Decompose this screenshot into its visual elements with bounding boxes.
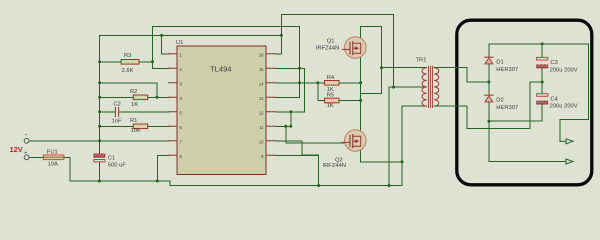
svg-text:C3: C3 <box>550 60 557 66</box>
node bus/R4 <box>359 81 362 84</box>
wire output minus to terminal <box>489 161 566 163</box>
node D2 anode / C4 bottom <box>487 120 490 123</box>
wire R5 right to source bus <box>339 100 361 102</box>
wire source bus Q1 bottom to Q2 top <box>360 58 362 131</box>
node pin16 vertical / W1 <box>280 34 283 37</box>
node primary top <box>380 66 383 69</box>
svg-text:D2: D2 <box>496 98 503 104</box>
capacitor C2 <box>112 102 122 125</box>
wire secondary top to D1/D2 junction <box>434 68 489 82</box>
wire W1 top inner (gnd bus to pins 1,16) <box>100 34 282 36</box>
resistor R3 <box>121 53 139 74</box>
node junction R3 right / outer loop <box>151 60 154 63</box>
node pin12 link top <box>289 110 292 113</box>
svg-text:1K: 1K <box>327 103 334 109</box>
node bus row83 <box>98 81 101 84</box>
node D1 anode / D2 cathode / secondary top <box>487 81 490 84</box>
wire pin12 link <box>276 111 304 113</box>
node R4 branch to R5 <box>316 81 319 84</box>
diode D2 HER307 <box>485 95 519 111</box>
svg-text:C2: C2 <box>114 102 121 108</box>
wire pin2 stub link <box>153 67 169 69</box>
node bus/R5 <box>359 99 362 102</box>
wire pin11 node to Q2 gate <box>286 126 345 143</box>
capacitor C4 200u 200V <box>537 94 578 110</box>
battery plus terminal <box>24 151 29 160</box>
wire primary top lead <box>382 67 427 69</box>
node junction pin1/W1 <box>160 34 163 37</box>
svg-text:U1: U1 <box>176 40 183 46</box>
wire R3 left lead <box>100 61 121 63</box>
wire Q1 drain loop <box>361 27 382 68</box>
wire pin14 to R4 <box>276 82 325 84</box>
wire pin10 path <box>276 141 319 155</box>
wire +12V rail right section (stepped) <box>170 181 402 186</box>
fuse FU1 <box>43 149 64 167</box>
wire R4 right to source bus <box>339 82 361 84</box>
svg-text:14: 14 <box>259 82 264 87</box>
node bus/R2 <box>98 96 101 99</box>
wire pin16 up and top rail to transformer centre tap <box>276 15 394 88</box>
svg-text:TL494: TL494 <box>210 65 232 74</box>
svg-text:R1: R1 <box>130 118 137 124</box>
wire top rail inside box <box>489 43 589 45</box>
wire plus terminal to fuse <box>29 156 43 158</box>
wire R3 right lead <box>139 61 153 63</box>
wire pin15 link <box>276 67 300 69</box>
wire centre tap down to rail <box>388 87 390 185</box>
wire C3 top lead <box>541 44 543 57</box>
transistor Q1 IRFZ44N <box>316 37 366 59</box>
svg-text:200u 200V: 200u 200V <box>550 104 578 110</box>
wire left gnd bus vertical <box>99 35 101 153</box>
svg-text:1K: 1K <box>131 102 138 108</box>
capacitor C1 (electrolytic) <box>94 154 127 169</box>
node C3 top on rail <box>541 42 544 45</box>
IC U1 TL494 <box>176 40 266 175</box>
resistor R5 <box>325 93 339 109</box>
svg-text:C4: C4 <box>550 97 558 103</box>
svg-text:10: 10 <box>259 140 264 145</box>
node pin9/10 drop on rail <box>317 184 320 187</box>
svg-text:13: 13 <box>259 96 264 101</box>
primary winding (left, bumps facing left) <box>422 68 427 106</box>
wire row-83 bus to R2-right node <box>100 83 157 98</box>
wire centre tap lead <box>389 86 427 88</box>
svg-text:200u 200V: 200u 200V <box>550 67 578 73</box>
transformer TR1 <box>416 58 439 108</box>
svg-text:HER307: HER307 <box>496 67 518 73</box>
resistor R2 <box>130 89 148 108</box>
svg-text:C1: C1 <box>108 156 115 162</box>
svg-text:12V: 12V <box>10 145 23 154</box>
wire +12V rail left section <box>70 180 170 182</box>
wire D2 anode down to output minus <box>488 103 490 162</box>
svg-text:R2: R2 <box>130 89 137 95</box>
svg-text:10K: 10K <box>131 128 141 134</box>
node bus/C2 <box>98 110 101 113</box>
wire pin12 to pin11 link <box>290 112 292 127</box>
node R2 right / row83 <box>155 96 158 99</box>
wire pin9 path to rail <box>276 155 319 185</box>
wire C3 bottom to C4 top <box>541 68 543 94</box>
wire R1 right lead to pin6 <box>148 125 169 127</box>
svg-text:IRFZ44N: IRFZ44N <box>316 46 340 52</box>
diode D1 HER307 <box>485 57 519 73</box>
wire C1 bottom lead <box>98 162 100 181</box>
terminal output plus <box>560 139 573 144</box>
pin numbers right <box>259 53 264 160</box>
svg-text:TR1: TR1 <box>416 58 427 64</box>
node bus/R1 <box>98 125 101 128</box>
wire fuse to rail down <box>64 157 70 181</box>
wire secondary bottom to C3/C4 midpoint <box>434 82 542 128</box>
node center-tap vertical on rail <box>388 184 391 187</box>
pin stubs right (16-9) <box>266 54 276 156</box>
node Q2 source / primary bottom vertical <box>401 160 404 163</box>
node C3/C4 midpoint <box>541 81 544 84</box>
svg-text:12: 12 <box>259 111 264 116</box>
wire Q2 source to right <box>361 151 402 162</box>
battery minus terminal <box>24 132 29 143</box>
svg-text:2.6K: 2.6K <box>122 68 134 74</box>
capacitor C3 200u 200V <box>537 57 578 73</box>
wire pin11 link <box>276 125 291 127</box>
wire R4node down to R5 left <box>318 83 325 101</box>
secondary winding (right, bumps facing right) <box>434 68 439 106</box>
pin numbers left <box>180 53 183 160</box>
transistor Q2 IRFZ44N <box>323 130 367 170</box>
node bus/R3 <box>98 60 101 63</box>
svg-text:HER307: HER307 <box>496 105 518 111</box>
svg-text:FU1: FU1 <box>47 149 58 155</box>
resistor R1 <box>130 118 148 134</box>
wire primary bottom lead and down <box>402 106 427 185</box>
wire C2 left lead <box>100 111 115 113</box>
wire pin15 jog down to pin12 <box>291 68 305 112</box>
node C1 bottom on rail <box>98 180 101 183</box>
wire C2 right lead to pin5 <box>120 111 169 113</box>
wire bus branch to primary-top vertical <box>361 68 382 94</box>
node pin11 gate branch <box>284 125 287 128</box>
resistor R4 <box>325 75 339 93</box>
svg-text:D1: D1 <box>496 60 503 66</box>
wire rectifier vertical (D1 cathode to top rail) <box>488 44 490 57</box>
black enclosure box <box>457 20 592 185</box>
svg-text:Q1: Q1 <box>327 39 335 45</box>
node pin14 on vertical <box>298 81 301 84</box>
svg-text:R3: R3 <box>124 53 131 59</box>
node pin11 link <box>289 125 292 128</box>
wire C4 bottom link <box>489 104 542 121</box>
node bus / minus wire <box>98 139 101 142</box>
node pin15 <box>298 67 301 70</box>
svg-text:15: 15 <box>259 67 264 72</box>
svg-text:+: + <box>24 151 27 157</box>
pin stubs left (1-8) <box>169 54 178 156</box>
wire D1 anode to junction <box>488 65 490 95</box>
wire R2 left lead <box>100 96 134 98</box>
svg-text:R4: R4 <box>327 75 335 81</box>
wire R1 left lead <box>100 125 134 127</box>
wire battery minus to pin7 <box>29 140 168 142</box>
wire pin8 to +12V rail <box>157 155 168 181</box>
wire outer loop (pin2/R3 node to pin15 vertical) <box>153 26 300 97</box>
wire R2 right lead to pin4 <box>148 96 169 98</box>
terminal output minus <box>566 159 573 164</box>
svg-text:10A: 10A <box>48 161 58 167</box>
svg-text:16: 16 <box>259 53 264 58</box>
svg-text:R5: R5 <box>327 93 334 99</box>
svg-text:500 uF: 500 uF <box>108 163 127 169</box>
core <box>428 66 432 107</box>
node top wire on centre-tap lead <box>392 86 395 89</box>
wire pin1 drop <box>162 35 169 53</box>
svg-text:1nF: 1nF <box>112 119 122 125</box>
node pin8 drop on rail <box>156 180 159 183</box>
svg-text:11: 11 <box>259 125 264 130</box>
svg-text:IRFZ44N: IRFZ44N <box>323 163 347 169</box>
wire output plus from top rail to terminal <box>560 44 589 141</box>
